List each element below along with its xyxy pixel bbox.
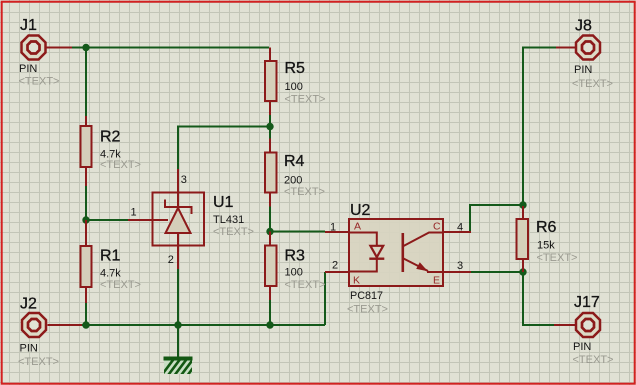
svg-text:1: 1 [330, 222, 336, 234]
svg-text:PIN: PIN [19, 63, 37, 75]
svg-text:PIN: PIN [574, 64, 592, 76]
svg-text:<TEXT>: <TEXT> [572, 78, 613, 90]
svg-text:15k: 15k [537, 240, 555, 252]
svg-text:<TEXT>: <TEXT> [573, 354, 614, 366]
svg-text:R1: R1 [100, 247, 121, 264]
svg-text:4: 4 [457, 222, 463, 234]
svg-text:PIN: PIN [573, 341, 591, 353]
svg-text:<TEXT>: <TEXT> [213, 226, 254, 238]
svg-text:2: 2 [332, 260, 338, 272]
svg-text:<TEXT>: <TEXT> [284, 186, 325, 198]
svg-text:R2: R2 [100, 128, 121, 145]
svg-text:K: K [353, 274, 360, 286]
svg-text:<TEXT>: <TEXT> [285, 279, 326, 291]
svg-text:1: 1 [131, 207, 137, 219]
svg-text:R6: R6 [536, 219, 557, 236]
svg-text:3: 3 [181, 174, 187, 186]
svg-text:J2: J2 [20, 296, 37, 313]
svg-text:E: E [433, 274, 440, 286]
svg-text:PIN: PIN [20, 343, 38, 355]
svg-text:200: 200 [284, 175, 302, 187]
svg-text:PC817: PC817 [350, 290, 383, 302]
svg-text:A: A [354, 220, 361, 232]
svg-text:<TEXT>: <TEXT> [100, 279, 141, 291]
svg-text:<TEXT>: <TEXT> [18, 356, 59, 368]
svg-text:C: C [433, 220, 441, 232]
svg-text:J17: J17 [574, 294, 600, 311]
svg-text:R5: R5 [285, 60, 306, 77]
svg-text:4.7k: 4.7k [100, 268, 121, 280]
svg-text:<TEXT>: <TEXT> [537, 252, 578, 264]
svg-text:3: 3 [457, 260, 463, 272]
svg-text:U2: U2 [350, 202, 371, 219]
svg-text:<TEXT>: <TEXT> [100, 159, 141, 171]
svg-text:100: 100 [285, 267, 303, 279]
svg-text:TL431: TL431 [213, 214, 244, 226]
svg-text:R3: R3 [285, 247, 306, 264]
svg-text:<TEXT>: <TEXT> [285, 94, 326, 106]
svg-text:100: 100 [285, 81, 303, 93]
svg-text:J8: J8 [575, 18, 592, 35]
svg-text:U1: U1 [213, 194, 234, 211]
svg-text:2: 2 [168, 254, 174, 266]
svg-text:J1: J1 [20, 17, 37, 34]
svg-text:<TEXT>: <TEXT> [19, 76, 60, 88]
svg-text:<TEXT>: <TEXT> [347, 304, 388, 316]
svg-text:R4: R4 [284, 153, 305, 170]
